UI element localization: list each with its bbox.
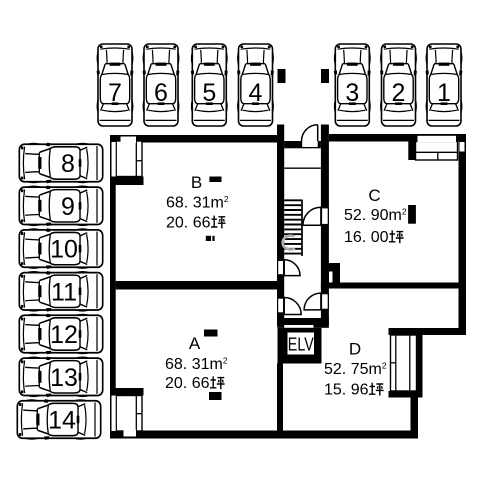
door to unit D (right corridor wall) leaf: [322, 294, 329, 310]
wall: corridor right wall: [321, 125, 329, 326]
wall: D upper-right wall: [389, 328, 467, 335]
entrance door gap in top wall: [302, 141, 318, 147]
wall: divider between C and D: [321, 283, 466, 289]
staircase treads: [284, 200, 301, 253]
door to unit A (left corridor wall) leaf: [278, 298, 284, 313]
wall: left exterior wall: [110, 135, 116, 439]
car 5: [191, 44, 228, 126]
door to unit B swing: [284, 260, 300, 276]
staircase right stringer: [301, 200, 303, 257]
unit B equipment mark: [209, 177, 221, 183]
svg-text:9: 9: [61, 193, 75, 221]
bay window unit B (top-left): [112, 137, 143, 177]
car 1: [426, 44, 463, 126]
svg-text:11: 11: [51, 278, 77, 306]
car 14: [17, 399, 100, 440]
svg-text:10: 10: [50, 236, 78, 264]
car 10: [19, 228, 102, 269]
svg-text:2: 2: [392, 79, 406, 107]
svg-text:B: B: [191, 173, 202, 192]
wall chunk below bay window B: [110, 177, 144, 186]
tsubo glyph for A: [210, 376, 225, 389]
bay window unit D (right): [391, 335, 417, 391]
svg-text:A: A: [189, 334, 201, 353]
svg-text:52. 90m2: 52. 90m2: [344, 207, 407, 225]
unit B small mark: [206, 236, 211, 241]
svg-text:6: 6: [154, 79, 168, 107]
wall chunk above bay window A: [110, 388, 144, 396]
svg-text:1: 1: [437, 79, 451, 107]
bay window unit A (bottom-left): [112, 396, 143, 437]
door to unit D swing: [304, 293, 321, 310]
car 12: [19, 314, 102, 355]
svg-text:5: 5: [202, 79, 216, 107]
svg-text:C: C: [368, 186, 380, 205]
svg-text:D: D: [349, 339, 361, 358]
car 2: [380, 44, 417, 126]
wall: D bay window outer bar: [417, 335, 423, 391]
unit C equipment mark: [408, 205, 416, 224]
pillar PS beside C entrance: [328, 263, 341, 283]
door to unit C (right corridor wall) leaf: [322, 208, 329, 225]
wall: top wall of unit C: [329, 134, 466, 142]
door to unit B (left corridor wall) leaf: [278, 260, 284, 274]
car 4: [237, 44, 274, 126]
door to unit C swing: [303, 207, 321, 225]
svg-text:20. 66: 20. 66: [166, 214, 211, 231]
svg-text:7: 7: [108, 79, 122, 107]
wall: corridor entrance top wall: [284, 141, 321, 148]
car 8: [19, 143, 102, 184]
entrance step line: [284, 167, 321, 169]
bollard right of entrance walk: [321, 69, 329, 83]
svg-text:68. 31m2: 68. 31m2: [166, 194, 229, 212]
elevator box: [277, 325, 284, 328]
bollard left of entrance walk: [278, 69, 286, 83]
svg-text:68. 31m2: 68. 31m2: [165, 355, 228, 373]
svg-text:4: 4: [249, 79, 263, 107]
tsubo glyph for B: [211, 216, 226, 229]
svg-text:16. 00: 16. 00: [344, 229, 389, 246]
wall: right exterior wall: [459, 134, 467, 335]
wall: D east wall: [411, 392, 419, 439]
svg-text:3: 3: [345, 79, 359, 107]
tsubo glyph for D: [369, 383, 384, 396]
unit A equipment mark: [204, 330, 218, 337]
wall chunk left of bay window C: [408, 142, 416, 161]
svg-text:52. 75m2: 52. 75m2: [324, 360, 387, 378]
car 3: [334, 44, 371, 126]
car 9: [19, 185, 102, 226]
svg-text:14: 14: [48, 407, 76, 435]
entrance door leaf and swing arc: [317, 125, 319, 141]
svg-text:20. 66: 20. 66: [165, 375, 210, 392]
wall below elevator: [277, 364, 283, 439]
car 6: [143, 44, 180, 126]
tsubo glyph for C: [389, 230, 404, 243]
car 7: [97, 44, 134, 126]
wall: corridor bottom wall: [277, 318, 329, 325]
wall: divider between B and A: [116, 281, 277, 290]
door to unit A swing: [284, 298, 301, 315]
bay window unit C (top-right): [416, 136, 465, 160]
wall: D bay window bottom wall: [389, 391, 423, 398]
svg-text:13: 13: [50, 364, 78, 392]
svg-text:15. 96: 15. 96: [324, 382, 369, 399]
svg-text:8: 8: [61, 150, 75, 178]
car 11: [19, 271, 102, 312]
wall: bottom exterior wall: [110, 431, 418, 439]
svg-text:ELV: ELV: [288, 334, 314, 355]
stair direction mark (faint): [283, 236, 295, 250]
car 13: [19, 356, 102, 397]
svg-text:12: 12: [50, 321, 78, 349]
unit A small mark: [209, 392, 222, 400]
wall: top wall of unit B: [110, 135, 277, 143]
wall: corridor left wall: [277, 125, 284, 326]
